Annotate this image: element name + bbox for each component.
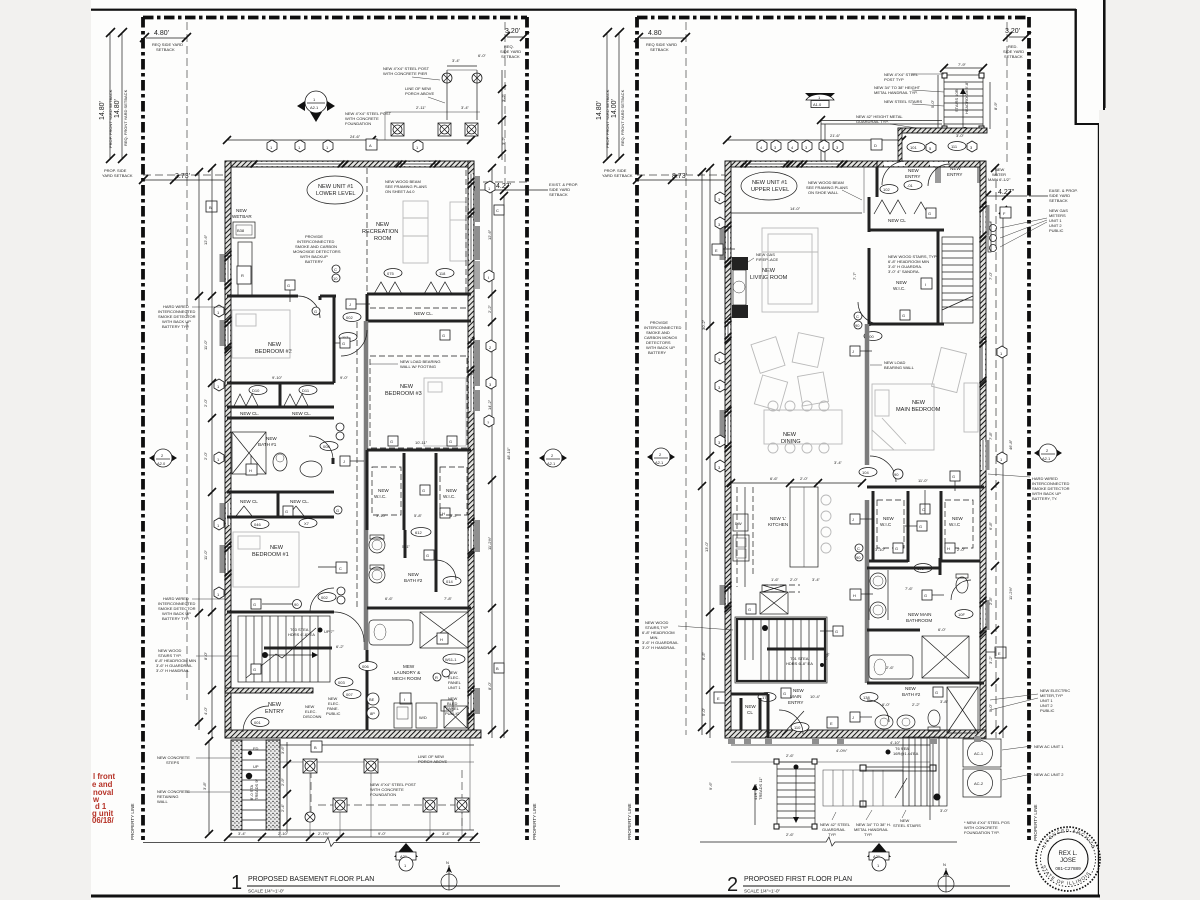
svg-text:C: C bbox=[857, 546, 860, 551]
exterior wall top main bbox=[725, 161, 877, 167]
stairs top wall bbox=[227, 611, 334, 614]
svg-text:3.73': 3.73' bbox=[175, 173, 190, 180]
left small stair (porch) bbox=[708, 753, 817, 837]
svg-text:3'-10": 3'-10" bbox=[875, 547, 886, 552]
svg-text:ROOM: ROOM bbox=[374, 236, 392, 242]
bedroom1 bbox=[252, 545, 289, 558]
svg-text:2'-6": 2'-6" bbox=[786, 753, 795, 758]
svg-text:ENTRY: ENTRY bbox=[265, 709, 284, 715]
dim 14.80 14.00 vertical bbox=[596, 28, 625, 163]
stairs bbox=[238, 616, 345, 682]
svg-text:7'-9": 7'-9" bbox=[958, 62, 967, 67]
svg-text:5'-0": 5'-0" bbox=[988, 703, 993, 712]
section marker right of plan2 bbox=[1034, 444, 1062, 462]
svg-text:NEW MAIN: NEW MAIN bbox=[908, 612, 931, 617]
window gaps left wall bbox=[226, 254, 230, 282]
svg-text:HDRS 6'-8" EA: HDRS 6'-8" EA bbox=[786, 661, 813, 666]
svg-text:G: G bbox=[902, 313, 905, 318]
WD boxes bbox=[394, 700, 467, 728]
dim 21'-6" bbox=[723, 133, 906, 144]
svg-text:NEW STEEL STAIRS: NEW STEEL STAIRS bbox=[884, 99, 923, 104]
window wells left wall plan1 bbox=[220, 254, 225, 282]
svg-text:GUARDRAIL TYP.: GUARDRAIL TYP. bbox=[856, 119, 889, 124]
window gaps right wall bbox=[469, 174, 473, 260]
svg-text:21'-6": 21'-6" bbox=[830, 133, 841, 138]
svg-text:SETBACK: SETBACK bbox=[650, 47, 669, 52]
svg-text:14.00': 14.00' bbox=[611, 99, 618, 118]
svg-text:G: G bbox=[783, 691, 786, 696]
svg-text:2'-4": 2'-4" bbox=[280, 803, 285, 812]
kitchen bbox=[768, 516, 788, 527]
bath2 bottom bbox=[902, 686, 921, 697]
svg-text:4.80': 4.80' bbox=[154, 30, 169, 37]
svg-text:AC-2: AC-2 bbox=[974, 781, 984, 786]
svg-text:003: 003 bbox=[338, 680, 345, 685]
svg-text:90: 90 bbox=[894, 472, 899, 477]
wic walls right column bbox=[367, 449, 471, 452]
svg-text:NEW: NEW bbox=[912, 400, 926, 406]
svg-text:4.27': 4.27' bbox=[496, 183, 511, 190]
entry labels bbox=[904, 168, 922, 190]
svg-text:PUBLIC: PUBLIC bbox=[1049, 228, 1064, 233]
sofa bbox=[762, 228, 818, 312]
svg-text:2'-2": 2'-2" bbox=[912, 702, 921, 707]
hex markers row above top wall bbox=[267, 140, 277, 152]
title 2 first floor bbox=[727, 874, 1010, 896]
svg-text:8.73': 8.73' bbox=[672, 173, 687, 180]
svg-text:WETBAR: WETBAR bbox=[232, 214, 252, 219]
hex markers left col bbox=[715, 192, 725, 204]
wic labels bbox=[374, 488, 389, 499]
svg-text:001: 001 bbox=[254, 720, 261, 725]
svg-text:G: G bbox=[253, 667, 256, 672]
svg-text:G: G bbox=[928, 211, 931, 216]
entry door arcs bbox=[882, 161, 906, 185]
svg-text:SCALE 1/4"=1'-0": SCALE 1/4"=1'-0" bbox=[248, 889, 285, 894]
svg-text:14'-2": 14'-2" bbox=[487, 399, 492, 410]
svg-text:HDRS 6'-8" EA: HDRS 6'-8" EA bbox=[288, 632, 315, 637]
svg-text:E: E bbox=[998, 651, 1001, 656]
svg-text:J: J bbox=[852, 349, 854, 354]
new cl small bbox=[741, 698, 760, 730]
svg-text:ON SHOE WALL: ON SHOE WALL bbox=[808, 190, 839, 195]
exterior wall left bbox=[225, 161, 231, 738]
svg-text:LAUNDRY &: LAUNDRY & bbox=[394, 670, 420, 675]
svg-text:N: N bbox=[943, 862, 946, 867]
main bedroom bbox=[896, 400, 941, 413]
svg-text:30'-2": 30'-2" bbox=[701, 319, 706, 330]
svg-text:B: B bbox=[209, 205, 212, 210]
svg-text:C: C bbox=[339, 566, 342, 571]
exterior wall top bbox=[225, 161, 474, 167]
svg-text:R: R bbox=[435, 675, 438, 680]
property line left (basement plan) bbox=[141, 17, 145, 840]
svg-text:3'-4": 3'-4" bbox=[461, 105, 470, 110]
svg-text:1: 1 bbox=[231, 872, 242, 894]
top porch post B bbox=[438, 123, 451, 136]
hall door arc mid bbox=[334, 612, 364, 642]
svg-text:BEDROOM #2: BEDROOM #2 bbox=[255, 349, 292, 355]
bedroom3 label bbox=[385, 384, 422, 397]
closet strip top right: walls bbox=[367, 293, 471, 296]
svg-text:FOUNDATION: FOUNDATION bbox=[345, 121, 371, 126]
exterior wall bottom bbox=[225, 730, 481, 738]
svg-text:BEDROOM #3: BEDROOM #3 bbox=[385, 391, 422, 397]
svg-text:8'-0": 8'-0" bbox=[203, 651, 208, 660]
hall oval 002 bbox=[343, 313, 361, 322]
svg-text:612: 612 bbox=[415, 530, 422, 535]
property line top bbox=[637, 16, 1029, 20]
G mid bbox=[334, 338, 350, 348]
property line left (first floor plan) bbox=[635, 17, 639, 840]
AC units bbox=[963, 739, 1001, 797]
svg-text:B: B bbox=[496, 666, 499, 671]
bath2 basins bbox=[875, 715, 893, 729]
svg-text:10'-4": 10'-4" bbox=[810, 694, 821, 699]
svg-text:ENTRY: ENTRY bbox=[788, 700, 804, 705]
svg-text:WITH CONCRETE PIER: WITH CONCRETE PIER bbox=[383, 71, 427, 76]
svg-text:JOSE: JOSE bbox=[1060, 858, 1076, 864]
svg-text:YARD SETBACK: YARD SETBACK bbox=[602, 173, 633, 178]
porch posts row2 bbox=[333, 798, 347, 812]
bedroom1 door bbox=[310, 588, 334, 612]
svg-text:NEW CL.: NEW CL. bbox=[292, 411, 311, 416]
bedroom2 door arc bbox=[298, 296, 320, 318]
svg-text:FD: FD bbox=[253, 746, 258, 751]
svg-text:NEW: NEW bbox=[905, 686, 916, 691]
svg-text:6'-0": 6'-0" bbox=[938, 627, 947, 632]
kitchen counter dashed bbox=[737, 487, 753, 587]
svg-text:BATTERY, TY.: BATTERY, TY. bbox=[1032, 496, 1057, 501]
svg-text:J: J bbox=[349, 302, 351, 307]
island bbox=[790, 487, 818, 567]
J box bbox=[346, 299, 370, 309]
svg-text:NEW AC UNIT 1: NEW AC UNIT 1 bbox=[1034, 744, 1064, 749]
svg-text:STEEL STAIRS: STEEL STAIRS bbox=[893, 823, 921, 828]
sheet top border line bbox=[91, 9, 1076, 11]
dashed line left of load bearing wall bbox=[356, 322, 358, 608]
setback dashed horizontal upper bbox=[143, 174, 227, 176]
setback horizontal left bbox=[637, 174, 727, 176]
svg-text:2'-11": 2'-11" bbox=[416, 105, 426, 110]
smoke detector note left lower bbox=[158, 596, 225, 621]
svg-text:2'-10": 2'-10" bbox=[278, 831, 289, 836]
svg-text:PUBLIC: PUBLIC bbox=[445, 711, 460, 716]
svg-text:SCALE 1/4"=1'-0": SCALE 1/4"=1'-0" bbox=[744, 889, 781, 894]
svg-text:7'-6": 7'-6" bbox=[905, 586, 914, 591]
dim 24'-6" porch bbox=[223, 134, 475, 144]
svg-text:102: 102 bbox=[883, 187, 890, 192]
svg-text:YARD SETBACK: YARD SETBACK bbox=[102, 173, 133, 178]
svg-text:NEW: NEW bbox=[883, 516, 894, 521]
wic bbox=[893, 278, 932, 291]
svg-text:46'-8": 46'-8" bbox=[1008, 439, 1013, 450]
svg-text:REQ. FRONT YARD SETBACK: REQ. FRONT YARD SETBACK bbox=[123, 89, 128, 146]
setback dashed right bbox=[1006, 22, 1008, 165]
svg-text:4'-0": 4'-0" bbox=[203, 706, 208, 715]
svg-text:NEW: NEW bbox=[908, 168, 919, 173]
wic door arc bbox=[858, 302, 880, 324]
svg-text:14.80': 14.80' bbox=[596, 101, 603, 120]
svg-text:N: N bbox=[446, 860, 449, 865]
top porch post A bbox=[391, 123, 404, 136]
svg-text:J: J bbox=[343, 459, 345, 464]
oval 104 door bbox=[859, 468, 877, 477]
svg-text:G: G bbox=[390, 439, 393, 444]
W11-1 oval bbox=[443, 654, 465, 664]
bath walls mid bbox=[867, 567, 940, 570]
svg-text:NEW: NEW bbox=[378, 488, 389, 493]
svg-text:3'-0": 3'-0" bbox=[956, 133, 965, 138]
svg-text:A2.1: A2.1 bbox=[547, 461, 556, 466]
smoke note left bbox=[644, 320, 681, 355]
entry door diagonal bbox=[782, 711, 804, 735]
svg-text:3'-8": 3'-8" bbox=[940, 699, 949, 704]
svg-text:3'-4": 3'-4" bbox=[442, 831, 451, 836]
svg-text:WALL: WALL bbox=[157, 799, 169, 804]
bath2 toilets bbox=[369, 535, 385, 553]
svg-text:BEARING WALL: BEARING WALL bbox=[884, 365, 915, 370]
svg-text:2'-6": 2'-6" bbox=[886, 665, 895, 670]
recreation room label bbox=[362, 222, 398, 242]
svg-text:NEW: NEW bbox=[270, 545, 284, 551]
svg-text:G: G bbox=[342, 341, 345, 346]
svg-text:FOUNDATION TYP.: FOUNDATION TYP. bbox=[964, 830, 1000, 835]
svg-text:NEW CL: NEW CL bbox=[888, 218, 906, 223]
svg-text:X7: X7 bbox=[304, 521, 310, 526]
svg-text:NEW CL: NEW CL bbox=[240, 499, 258, 504]
closet accordion doors bbox=[234, 394, 258, 406]
window wells right wall bbox=[475, 176, 480, 222]
R box bbox=[237, 266, 251, 284]
walls around wic bbox=[868, 248, 871, 326]
bottom dim line bbox=[224, 831, 478, 841]
svg-text:11'-0": 11'-0" bbox=[203, 550, 208, 560]
svg-text:R: R bbox=[241, 273, 244, 278]
svg-text:2'-0": 2'-0" bbox=[203, 398, 208, 407]
wetbar label bbox=[232, 208, 255, 238]
svg-text:9'-6": 9'-6" bbox=[708, 781, 713, 790]
svg-text:G: G bbox=[895, 546, 898, 551]
section marker diamond top bbox=[297, 91, 335, 122]
armchairs living bbox=[751, 333, 828, 411]
svg-text:2'-9": 2'-9" bbox=[280, 777, 285, 786]
svg-text:8'-0": 8'-0" bbox=[487, 681, 492, 690]
I box bbox=[400, 693, 411, 704]
grade line plan1 bbox=[143, 838, 480, 847]
svg-text:111: 111 bbox=[951, 144, 958, 149]
E box left bbox=[712, 244, 735, 255]
entry top wall bbox=[898, 128, 987, 133]
top porch outline bbox=[385, 111, 480, 113]
section marker left of plan1 bbox=[149, 449, 177, 467]
rec room inner dashed line bbox=[465, 170, 467, 293]
svg-text:NEW: NEW bbox=[896, 280, 907, 285]
island stools bbox=[821, 495, 831, 553]
svg-text:G: G bbox=[285, 509, 288, 514]
window gap top wall bbox=[254, 162, 341, 166]
property line right bbox=[1027, 17, 1031, 840]
svg-text:A2.1: A2.1 bbox=[655, 460, 664, 465]
svg-text:NEW UNIT #1: NEW UNIT #1 bbox=[752, 180, 787, 186]
svg-text:11'-0": 11'-0" bbox=[918, 478, 928, 483]
exterior wall bottom bbox=[725, 730, 986, 738]
left hex markers bbox=[214, 305, 224, 317]
wic dashed rects bbox=[877, 500, 904, 548]
entry label bbox=[251, 702, 284, 727]
right markers bbox=[485, 181, 495, 193]
window wells left wall plan2 bbox=[720, 225, 725, 260]
svg-text:D10: D10 bbox=[252, 388, 260, 393]
C box bedroom1 bbox=[318, 562, 347, 573]
svg-text:3'-0" H HANDRAIL: 3'-0" H HANDRAIL bbox=[156, 668, 190, 673]
center stair (porch) bbox=[823, 737, 949, 813]
svg-text:UP 7": UP 7" bbox=[324, 629, 335, 634]
svg-text:006: 006 bbox=[362, 664, 369, 669]
dim 4.80' bbox=[140, 30, 191, 52]
right hex markers bbox=[997, 346, 1007, 358]
dining bbox=[781, 432, 801, 445]
svg-text:3'-4": 3'-4" bbox=[238, 831, 247, 836]
svg-text:LIVING ROOM: LIVING ROOM bbox=[750, 275, 788, 281]
svg-text:NEW: NEW bbox=[268, 702, 282, 708]
exterior wall right bbox=[468, 161, 474, 738]
svg-text:SETBACK: SETBACK bbox=[1049, 198, 1068, 203]
svg-text:NEW: NEW bbox=[236, 208, 247, 213]
vanity line bbox=[868, 570, 870, 620]
svg-text:C: C bbox=[496, 208, 499, 213]
svg-text:ON SHEET A4.0: ON SHEET A4.0 bbox=[385, 189, 415, 194]
svg-text:MEW: MEW bbox=[403, 664, 415, 669]
svg-text:081-C27889: 081-C27889 bbox=[1055, 866, 1081, 871]
svg-text:7'-8": 7'-8" bbox=[444, 596, 453, 601]
svg-text:SETBACK: SETBACK bbox=[501, 54, 520, 59]
svg-text:A2.1: A2.1 bbox=[1042, 456, 1051, 461]
left dim column bbox=[195, 164, 216, 738]
svg-text:METAL HANDRAIL TYP.: METAL HANDRAIL TYP. bbox=[874, 90, 918, 95]
svg-text:WALL W/ FOOTING: WALL W/ FOOTING bbox=[400, 364, 436, 369]
left margin notes bbox=[157, 755, 236, 765]
wood beam note bbox=[806, 180, 862, 200]
property line top bbox=[143, 16, 527, 20]
svg-text:2'-0": 2'-0" bbox=[203, 451, 208, 460]
svg-text:DISCONN: DISCONN bbox=[303, 714, 322, 719]
entry ovals bbox=[907, 142, 936, 153]
svg-text:1'-6": 1'-6" bbox=[771, 577, 780, 582]
svg-text:16R@1.44'EA: 16R@1.44'EA bbox=[893, 751, 919, 756]
svg-text:NEW: NEW bbox=[783, 432, 797, 438]
mid wall bbox=[367, 607, 471, 610]
dim 4.27' right bbox=[468, 182, 578, 197]
svg-text:ENTRY: ENTRY bbox=[947, 172, 963, 177]
svg-text:NEW: NEW bbox=[793, 688, 804, 693]
svg-text:2'-7½": 2'-7½" bbox=[318, 831, 330, 836]
svg-text:H: H bbox=[249, 468, 252, 473]
svg-text:STAIRS 10R: STAIRS 10R bbox=[954, 89, 959, 112]
svg-text:PROP. FRONT YARD SETBACK: PROP. FRONT YARD SETBACK bbox=[108, 89, 113, 148]
section marker bottom bbox=[394, 843, 418, 871]
svg-text:NEW: NEW bbox=[268, 342, 282, 348]
oval 005 bbox=[335, 678, 353, 687]
J box wic left bbox=[340, 456, 364, 466]
svg-text:W.I.C: W.I.C bbox=[880, 522, 892, 527]
svg-text:3'-4": 3'-4" bbox=[452, 58, 461, 63]
new cl label bbox=[370, 307, 468, 309]
wood stairs note bbox=[888, 254, 937, 274]
svg-text:6'-8": 6'-8" bbox=[988, 521, 993, 530]
svg-text:5'-1": 5'-1" bbox=[402, 544, 411, 549]
svg-text:11'-0": 11'-0" bbox=[203, 340, 208, 350]
closet ovals bbox=[249, 386, 267, 395]
svg-text:10: 10 bbox=[333, 276, 338, 281]
svg-text:NEW: NEW bbox=[762, 268, 776, 274]
svg-text:J: J bbox=[852, 517, 854, 522]
load bearing label bbox=[370, 359, 440, 369]
right column: wic rooms bbox=[867, 486, 984, 489]
svg-text:7'-7": 7'-7" bbox=[852, 271, 857, 280]
electric meter note right bbox=[990, 688, 1070, 713]
svg-text:H: H bbox=[440, 637, 443, 642]
svg-text:NEW: NEW bbox=[400, 384, 414, 390]
basins bbox=[870, 573, 886, 589]
hex marker pairs row bbox=[757, 140, 767, 152]
wood stairs note bbox=[155, 648, 238, 673]
porch posts row1 bbox=[303, 759, 317, 773]
svg-text:3'-6": 3'-6" bbox=[280, 745, 285, 754]
svg-text:G: G bbox=[426, 553, 429, 558]
svg-text:NEW UNIT #1: NEW UNIT #1 bbox=[318, 184, 353, 190]
svg-text:CL: CL bbox=[747, 710, 753, 715]
bedroom3 bed bbox=[424, 378, 466, 446]
svg-text:G: G bbox=[449, 439, 452, 444]
load bearing wall (gray) bbox=[364, 321, 369, 650]
right dim column bbox=[487, 164, 511, 738]
svg-text:TREADS 11": TREADS 11" bbox=[758, 777, 763, 800]
stair notes left bbox=[884, 72, 944, 82]
svg-text:3.20': 3.20' bbox=[1005, 28, 1020, 35]
smoke detector note left upper bbox=[158, 304, 225, 329]
svg-text:101: 101 bbox=[910, 145, 917, 150]
oval 106 bbox=[914, 564, 932, 573]
svg-text:6'-6": 6'-6" bbox=[770, 476, 779, 481]
svg-text:90: 90 bbox=[294, 602, 299, 607]
svg-text:G: G bbox=[336, 508, 339, 513]
circles markers left of wic bbox=[854, 312, 862, 329]
bath2 walls bbox=[404, 530, 407, 558]
sink bbox=[733, 535, 749, 561]
bath2 label bbox=[404, 572, 423, 583]
svg-text:PROPERTY LINE: PROPERTY LINE bbox=[627, 803, 632, 840]
G box bedroom1 bbox=[251, 599, 261, 609]
porch edge lines bbox=[279, 739, 281, 830]
svg-text:D11: D11 bbox=[302, 388, 310, 393]
svg-text:H: H bbox=[947, 546, 950, 551]
svg-text:G: G bbox=[835, 629, 838, 634]
svg-text:SETBACK: SETBACK bbox=[549, 192, 568, 197]
bedroom2 top wall bbox=[227, 295, 298, 298]
svg-text:W.I.C: W.I.C bbox=[949, 522, 961, 527]
svg-text:FIREPLACE: FIREPLACE bbox=[756, 257, 779, 262]
svg-text:REQ. FRONT YARD SETBACK: REQ. FRONT YARD SETBACK bbox=[620, 89, 625, 146]
grade line below porch bbox=[700, 837, 957, 846]
porch bottom notes bbox=[820, 822, 851, 837]
svg-text:BATH #2: BATH #2 bbox=[404, 578, 423, 583]
svg-text:11'-2½": 11'-2½" bbox=[1008, 586, 1013, 600]
svg-text:3'-4": 3'-4" bbox=[834, 460, 843, 465]
dim right margin bbox=[988, 164, 1013, 738]
left dim column bbox=[698, 164, 714, 738]
G box right bbox=[440, 330, 450, 340]
